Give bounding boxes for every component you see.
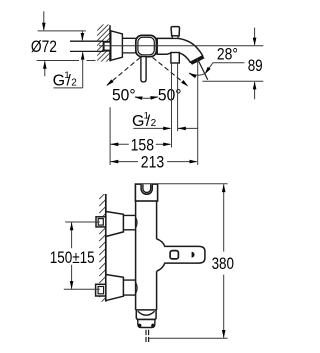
temperature handle (front view): [157, 239, 205, 271]
handle hole: [170, 251, 178, 259]
top bracket (hose holder): [135, 184, 157, 201]
wall hatching (front view): [99, 192, 106, 311]
svg-text:G: G: [132, 113, 144, 130]
wall extension line (158/213): [109, 107, 111, 165]
G 1/2 pipe arrow bottom / leader: [82, 52, 84, 88]
bottom inlet nut: [96, 284, 106, 296]
28 angle arc arrow: [189, 73, 204, 75]
svg-text:50°: 50°: [112, 86, 136, 105]
handle mark: [192, 252, 195, 258]
diverter knob: [171, 27, 179, 36]
shower outlet nipple: [171, 53, 179, 64]
centerline: [99, 45, 263, 47]
lever swivel dashed line left 50: [107, 57, 140, 85]
body bottom line: [136, 309, 157, 311]
bracket U notch inner: [143, 184, 151, 192]
pipe union nut: [104, 42, 111, 51]
svg-text:150±15: 150±15: [50, 248, 95, 267]
wall line (front view): [105, 194, 107, 302]
dimension 89 lower extension line: [202, 80, 263, 82]
wall hatching (top view): [97, 17, 111, 71]
collar smile curve: [138, 311, 155, 315]
top inlet escutcheon: [106, 212, 124, 237]
svg-text:2: 2: [151, 118, 157, 129]
top inlet fillet: [136, 217, 138, 228]
svg-text:Ø72: Ø72: [31, 37, 57, 56]
svg-text:89: 89: [248, 56, 263, 75]
thermostat knob outer (top view): [136, 35, 157, 56]
lever handle (top view): [141, 57, 146, 82]
top inlet cylinder: [123, 215, 135, 229]
dimension 89 top arrow: [254, 28, 256, 45]
label G 1/2 (middle): [132, 110, 157, 130]
G 1/2 leader with arrows: [133, 127, 170, 129]
diameter 72 bottom arrow: [44, 61, 46, 76]
connection cylinder (top view): [122, 38, 135, 53]
spout lower contour: [156, 53, 190, 63]
body (front view): [136, 201, 157, 310]
dimension 380 line and arrows: [223, 184, 225, 251]
body edge behind knob: [156, 39, 158, 55]
aerator right nub: [151, 324, 154, 328]
water stream dashes: [145, 330, 147, 342]
spout tip extension line: [197, 59, 199, 165]
nipple extension line left: [171, 63, 173, 147]
dimension 150+-15 line and arrows: [71, 223, 73, 249]
supply pipe (top view): [70, 41, 104, 51]
bracket U notch outer: [141, 184, 152, 194]
bottom inlet fillet: [136, 282, 138, 293]
svg-text:380: 380: [212, 254, 234, 273]
dimension diameter 72 top line: [38, 30, 86, 32]
lever swivel dashed line right 50: [153, 57, 188, 85]
swivel arc arrow: [135, 97, 158, 99]
diverter knob foot: [172, 36, 178, 39]
svg-text:213: 213: [141, 153, 164, 172]
diameter 72 top arrow: [43, 11, 45, 30]
dimension 158: [110, 143, 129, 145]
svg-text:G: G: [53, 72, 65, 89]
dimension diameter 72 bottom line: [37, 60, 79, 62]
28 leader line: [206, 63, 245, 73]
bottom inlet cylinder: [123, 280, 135, 295]
nipple extension line right: [177, 63, 179, 131]
svg-text:28°: 28°: [217, 44, 238, 63]
water stream direction line 28: [198, 60, 208, 80]
aerator left nub: [138, 324, 141, 328]
svg-text:2: 2: [71, 78, 77, 89]
spout collar (front view): [136, 310, 156, 319]
label G 1/2 (top left): [53, 70, 78, 90]
spout mouth face: [190, 55, 205, 64]
G 1/2 pipe arrow top: [81, 31, 83, 40]
dimension 213: [110, 161, 138, 163]
escutcheon (top view): [111, 31, 123, 61]
aerator: [138, 320, 155, 328]
thermostat knob inner: [138, 37, 154, 55]
dimension 380 extension lines: [158, 183, 228, 185]
svg-text:158: 158: [131, 135, 154, 154]
bottom inlet escutcheon: [106, 275, 124, 301]
dimension 150+-15 extension lines: [65, 221, 100, 223]
spout upper contour: [156, 38, 203, 57]
wall line (top view): [109, 25, 111, 61]
top inlet nut: [96, 217, 106, 227]
dimension 89 bottom arrow: [254, 82, 256, 99]
